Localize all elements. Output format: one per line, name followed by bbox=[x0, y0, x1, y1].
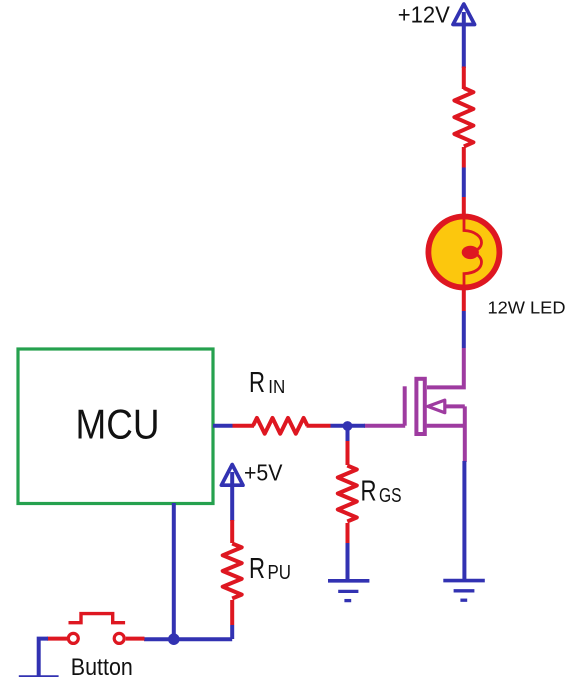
resistor RGS bbox=[338, 466, 357, 522]
gate line bbox=[403, 386, 407, 425]
wire: R1 to LED (red then blue then red) bbox=[462, 147, 466, 168]
wire: RPU to junction (red then blue) bbox=[230, 600, 234, 625]
svg-text:R: R bbox=[249, 367, 265, 399]
wire: LED to Q1 drain (red/blue/purple) bbox=[462, 287, 466, 311]
channel bar bbox=[416, 379, 424, 434]
wire: MCU to RIN (blue then red) bbox=[213, 424, 233, 428]
ground (under Q1 source) bbox=[443, 581, 485, 601]
svg-text:GS: GS bbox=[379, 485, 402, 507]
node A (gate node) bbox=[343, 421, 353, 431]
button S1 bbox=[47, 614, 145, 644]
ground (under RGS) bbox=[328, 581, 369, 601]
wire: +12V to R1 (red) bbox=[462, 67, 466, 90]
wire: node to gate (blue then purple handled above) bbox=[347, 424, 365, 428]
wire: node to RGS (blue then red) bbox=[346, 430, 350, 442]
svg-text:+12V: +12V bbox=[398, 1, 451, 27]
wire: Q1 source to ground (blue) bbox=[462, 461, 466, 580]
terminal stubs bbox=[47, 637, 67, 641]
gate wire (purple part) bbox=[364, 424, 405, 428]
node B (button junction) bbox=[168, 633, 180, 645]
ground (bottom left, clipped) bbox=[19, 675, 59, 677]
resistor RPU bbox=[223, 544, 242, 599]
power +5V arrow bbox=[221, 465, 243, 522]
wire: RIN to node (red then blue) bbox=[307, 424, 331, 428]
resistor R1 bbox=[454, 88, 473, 147]
svg-text:12W LED: 12W LED bbox=[488, 298, 566, 318]
actuator bbox=[69, 614, 126, 623]
source horizontal bbox=[427, 424, 465, 428]
wire: RGS to ground (red then blue) bbox=[346, 523, 350, 543]
svg-text:MCU: MCU bbox=[76, 401, 160, 448]
source/body vertical bbox=[463, 406, 467, 462]
wire: button left to ground (blue) bbox=[39, 639, 48, 676]
wire: MCU bottom to junction (blue) bbox=[172, 503, 176, 639]
svg-text:+5V: +5V bbox=[244, 460, 283, 486]
MCU U1 box bbox=[18, 349, 213, 504]
svg-text:IN: IN bbox=[268, 376, 285, 397]
svg-text:PU: PU bbox=[268, 562, 292, 584]
wire: junction horizontal (blue) bbox=[144, 637, 232, 641]
svg-text:R: R bbox=[361, 475, 377, 507]
left terminal circle bbox=[68, 633, 78, 643]
svg-text:R: R bbox=[249, 553, 265, 585]
body line with arrow bbox=[445, 404, 465, 408]
svg-text:Button: Button bbox=[71, 654, 133, 677]
power +12V arrow bbox=[453, 4, 475, 68]
right terminal circle bbox=[114, 633, 124, 643]
transistor Q1 (N-MOSFET) bbox=[364, 379, 465, 462]
LED lamp 12W bbox=[428, 217, 499, 288]
wire: +5V to RPU (red) bbox=[230, 520, 234, 543]
resistor RIN bbox=[253, 418, 308, 434]
